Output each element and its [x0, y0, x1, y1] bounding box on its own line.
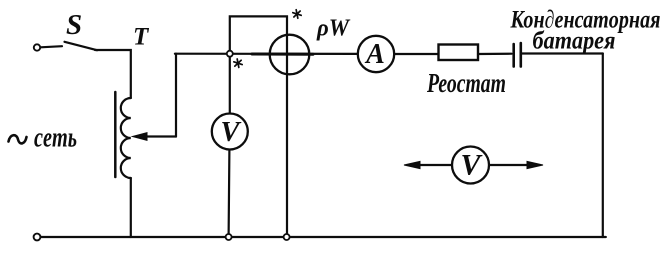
terminal bottom-left: [34, 234, 41, 241]
svg-text:ρW: ρW: [316, 16, 351, 42]
terminal top-left: [34, 44, 40, 50]
ammeter A circle: [358, 36, 394, 72]
svg-text:V: V: [221, 117, 242, 148]
V2 left arrow wire: [415, 164, 452, 166]
wire capacitor to right corner: [522, 52, 603, 54]
svg-text:S: S: [66, 9, 82, 41]
wiper arrow wire: [144, 135, 176, 137]
wattmeter current-coil heavy segment: [252, 53, 313, 56]
wire transformer bottom to bottom rail: [130, 178, 132, 237]
svg-text:V: V: [461, 149, 484, 182]
wire stub from top-left terminal: [41, 46, 63, 47]
wire V1 to bottom rail: [228, 149, 231, 237]
transformer T winding: [121, 98, 131, 178]
asterisk near junction: [233, 58, 244, 68]
wire switch to transformer top: [95, 50, 131, 98]
transformer core bar: [114, 92, 117, 177]
svg-text:T: T: [133, 24, 150, 51]
node bottom rail right: [284, 234, 290, 240]
V2 right arrowhead: [527, 161, 543, 168]
V2 right arrow wire: [489, 164, 528, 166]
asterisk near wattmeter top: [292, 9, 303, 19]
wattmeter voltage coil wire: [230, 16, 287, 237]
wire junction down to voltmeter V1: [229, 54, 231, 114]
V2 left arrowhead: [404, 161, 420, 168]
wiper arrowhead: [133, 133, 148, 141]
rheostat box: [439, 45, 479, 61]
wire ammeter to rheostat: [394, 53, 438, 55]
right side wire down: [602, 54, 604, 238]
svg-text:cemь: cemь: [34, 123, 77, 154]
wire wiper up to main line: [175, 54, 177, 137]
capacitor plate right: [519, 43, 522, 67]
voltmeter V1 circle: [212, 114, 248, 150]
svg-text:A: A: [364, 39, 385, 70]
wattmeter PW circle: [270, 35, 310, 75]
switch S blade: [65, 42, 98, 50]
wire rheostat to capacitor: [478, 53, 512, 55]
node junction on main wire: [227, 51, 233, 57]
capacitor plate left: [512, 44, 515, 67]
voltmeter V2 circle: [452, 147, 489, 184]
svg-text:баmарея: баmарея: [533, 28, 616, 55]
bottom rail wire: [41, 236, 606, 238]
~ mains tilde: [9, 135, 27, 143]
main top wire through wattmeter: [175, 53, 358, 55]
node bottom rail left: [226, 234, 232, 240]
svg-text:Реосmаm: Реосmаm: [426, 68, 506, 98]
